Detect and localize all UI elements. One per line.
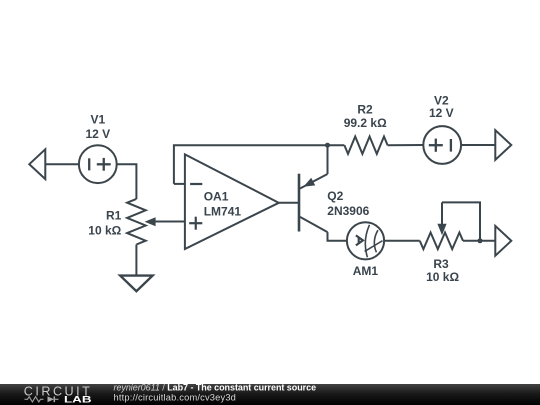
wire V2 to PORT2 [461, 144, 495, 146]
svg-text:10 kΩ: 10 kΩ [88, 224, 121, 238]
svg-text:LM741: LM741 [204, 205, 242, 219]
voltage source V1 [79, 145, 117, 183]
wire OA1 output to Q2 base [279, 202, 299, 204]
logo resistor squiggle [25, 397, 44, 402]
wire Q2 emitter to node A [327, 145, 329, 174]
potentiometer R3 [420, 202, 480, 249]
wire node A to R2 [328, 144, 345, 146]
potentiometer R1 [127, 199, 156, 245]
svg-text:12 V: 12 V [85, 127, 110, 141]
svg-text:reynier0611 / Lab7 - The const: reynier0611 / Lab7 - The constant curren… [114, 384, 317, 393]
ammeter AM1 [347, 222, 384, 259]
logo diode [48, 396, 55, 402]
ground [120, 276, 152, 292]
svg-text:12 V: 12 V [429, 106, 454, 120]
feedback wire OA1 - input to node A [174, 145, 328, 184]
wire R1 wiper to OA1 + input [154, 221, 185, 223]
svg-text:LAB: LAB [64, 395, 92, 405]
junction node B [478, 238, 483, 243]
junction node A [325, 143, 330, 148]
wire OA1 - input stub [174, 183, 185, 185]
svg-text:R2: R2 [357, 102, 373, 116]
svg-text:10 kΩ: 10 kΩ [426, 270, 459, 284]
wire PORT1 to V1 [45, 163, 79, 165]
svg-text:OA1: OA1 [204, 190, 229, 204]
wire R2 to V2 [388, 144, 424, 146]
wire R1 to ground [135, 245, 137, 276]
svg-text:V1: V1 [90, 112, 105, 126]
port PORT2 (top right) [495, 130, 511, 160]
svg-text:99.2 kΩ: 99.2 kΩ [344, 116, 387, 130]
transistor Q2 [299, 174, 328, 232]
voltage source V2 [423, 126, 461, 164]
wire V1 to R1 [117, 164, 137, 199]
svg-text:R1: R1 [106, 209, 122, 223]
op-amp OA1 [185, 154, 279, 249]
resistor R2 [344, 137, 387, 154]
port PORT1 (left) [29, 149, 45, 179]
svg-text:http://circuitlab.com/cv3ey3d: http://circuitlab.com/cv3ey3d [114, 393, 237, 403]
wire R3 to PORT3 [463, 240, 495, 242]
wire Q2 collector to AM1 [328, 232, 347, 241]
svg-text:Q2: Q2 [327, 189, 343, 203]
svg-text:2N3906: 2N3906 [327, 204, 369, 218]
wire AM1 to R3 [384, 240, 420, 242]
svg-text:AM1: AM1 [353, 264, 379, 278]
port PORT3 (bottom right) [495, 226, 511, 256]
